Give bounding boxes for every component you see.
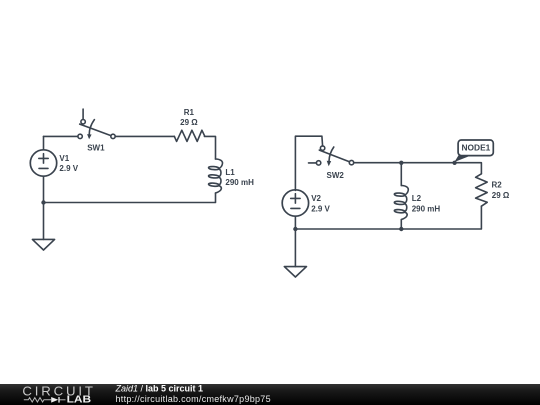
inductor L2 [394,163,408,229]
switch SW1 [78,109,115,139]
svg-text:V1: V1 [59,154,69,163]
svg-text:R1: R1 [184,108,195,117]
svg-text:NODE1: NODE1 [462,144,491,153]
ground (left) [32,203,54,251]
junction dot L2 bottom [399,227,403,231]
wire SW1 to R1 [115,135,174,137]
svg-text:29 Ω: 29 Ω [180,118,198,127]
svg-text:R2: R2 [492,181,503,190]
wire R2 bottom [295,206,481,229]
switch SW2 [309,146,354,166]
svg-text:LAB: LAB [67,394,92,405]
svg-text:2.9 V: 2.9 V [311,204,330,213]
wire L1 bottom to ground rail [44,193,216,203]
svg-text:290 mH: 290 mH [225,178,254,187]
junction dot SW2/L2 top [399,161,403,165]
resistor R2 [476,174,488,206]
wire V2 top riser [295,136,322,190]
svg-text:SW2: SW2 [327,171,345,180]
svg-text:V2: V2 [311,194,321,203]
voltage source V2 [282,190,308,216]
CircuitLab logo wordmark [22,384,93,405]
logo diode [51,397,58,403]
wire V1 top riser [43,136,45,149]
node NODE1 flag [454,140,493,162]
logo resistor squiggle [24,398,51,402]
wire V1 to SW1 left terminal [44,135,78,137]
wire V1 bottom stem [43,176,45,202]
svg-text:L1: L1 [225,168,235,177]
wire V2 bottom stem [294,216,296,229]
wire SW2 to R2 corner [354,163,482,174]
resistor R1 [174,130,205,141]
svg-text:290 mH: 290 mH [412,204,441,213]
svg-text:L2: L2 [412,194,422,203]
node junction dot V1/ground [41,200,45,204]
svg-text:http://circuitlab.com/cmefkw7p: http://circuitlab.com/cmefkw7p9bp75 [116,394,271,404]
ground (right) [284,229,306,277]
inductor L1 [208,159,222,193]
wire R1 to corner [204,136,215,159]
footer bar [0,384,540,405]
junction dot NODE1 tail [452,161,456,165]
voltage source V1 [30,150,56,176]
svg-text:29 Ω: 29 Ω [492,191,510,200]
svg-text:SW1: SW1 [87,144,105,153]
svg-text:Zaid1 / lab 5 circuit 1: Zaid1 / lab 5 circuit 1 [115,384,204,394]
junction dot V2 bottom [293,227,297,231]
svg-text:2.9 V: 2.9 V [59,164,78,173]
